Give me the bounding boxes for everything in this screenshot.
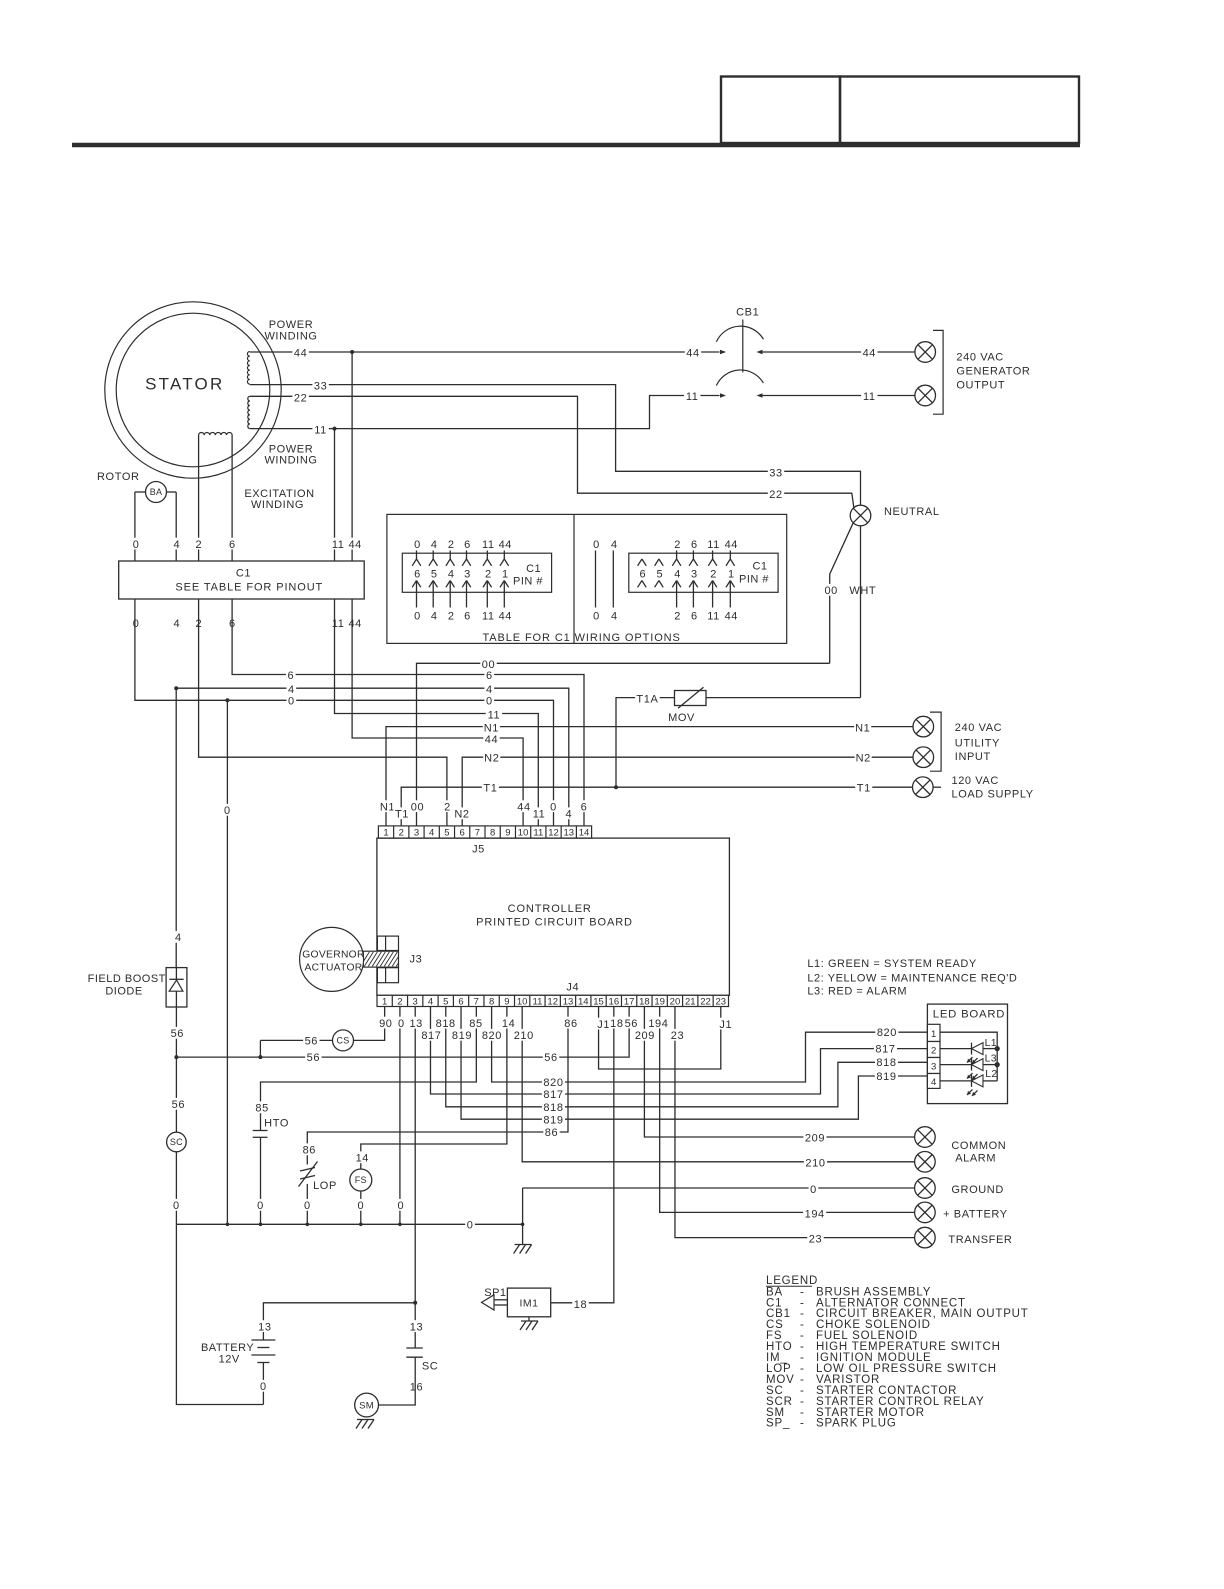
svg-text:14: 14 — [579, 827, 590, 838]
wire 4 label b — [484, 683, 494, 695]
wire 11 label c — [486, 708, 502, 720]
svg-text:-: - — [800, 1418, 805, 1430]
svg-text:13: 13 — [258, 1321, 271, 1333]
wire 00 label b — [480, 658, 496, 670]
svg-text:OUTPUT: OUTPUT — [956, 379, 1005, 391]
wire T1A label — [635, 692, 660, 704]
svg-text:2: 2 — [710, 568, 717, 580]
svg-text:11: 11 — [533, 809, 546, 821]
label 819 mid — [542, 1113, 565, 1125]
power winding coil 2 — [248, 396, 250, 428]
label 820 b — [875, 1026, 898, 1038]
wire 56 diode to SC — [175, 1007, 177, 1132]
wire 18 J4-16 to IM1 — [551, 1007, 614, 1303]
wire LOP to ground bus — [306, 1184, 308, 1224]
label 819 a — [450, 1029, 473, 1041]
svg-text:56: 56 — [544, 1052, 557, 1064]
wire 33 stator run — [250, 385, 861, 506]
svg-text:13: 13 — [563, 827, 574, 838]
svg-text:STATOR: STATOR — [145, 375, 224, 394]
svg-text:IM1: IM1 — [519, 1298, 538, 1310]
wire 11 drop to C1 — [334, 429, 336, 561]
svg-text:6: 6 — [464, 611, 471, 623]
label 817 b — [874, 1042, 897, 1054]
LED board box — [927, 1004, 1007, 1104]
svg-text:1: 1 — [502, 568, 509, 580]
wire 194 J4-19 to terminal — [660, 1007, 915, 1213]
title block rule — [72, 143, 1080, 148]
svg-text:819: 819 — [452, 1030, 472, 1042]
svg-text:CONTROLLER: CONTROLLER — [508, 903, 592, 915]
starter motor SM — [355, 1393, 379, 1417]
svg-text:210: 210 — [514, 1030, 534, 1042]
svg-text:2: 2 — [397, 996, 402, 1007]
label 4 above J5-13 — [564, 807, 574, 819]
svg-text:22: 22 — [294, 392, 307, 404]
svg-text:0: 0 — [593, 611, 600, 623]
svg-text:0: 0 — [173, 1200, 180, 1212]
svg-text:23: 23 — [716, 996, 727, 1007]
svg-text:J1: J1 — [597, 1019, 610, 1031]
svg-text:0: 0 — [398, 1200, 405, 1212]
svg-text:J4: J4 — [566, 981, 579, 993]
C1 option1 pin 1 wire 44 — [497, 538, 513, 550]
label 56 diode b — [170, 1098, 186, 1110]
wire 11 run to J5-11 — [335, 599, 539, 826]
high temperature switch HTO — [253, 1130, 268, 1132]
label 86 LOP — [301, 1143, 317, 1155]
wire 22 label a — [292, 391, 308, 403]
svg-text:16: 16 — [410, 1382, 423, 1394]
svg-text:23: 23 — [809, 1233, 822, 1245]
label 23 a — [669, 1029, 685, 1041]
wire T1 J5-2 to terminal — [401, 787, 912, 826]
wire 44 label d — [483, 733, 499, 745]
svg-text:LEGEND: LEGEND — [766, 1275, 818, 1287]
svg-text:820: 820 — [877, 1027, 897, 1039]
svg-text:FS: FS — [355, 1175, 367, 1185]
svg-text:1: 1 — [728, 568, 735, 580]
starter contactor SC contacts — [406, 1347, 423, 1349]
svg-text:6: 6 — [691, 611, 698, 623]
wire bus to battery negative — [176, 1224, 263, 1404]
svg-text:LED BOARD: LED BOARD — [933, 1008, 1006, 1020]
svg-text:16: 16 — [609, 996, 620, 1007]
svg-text:6: 6 — [486, 670, 493, 682]
label 14 J4-9 — [500, 1017, 516, 1029]
junction 11 — [333, 427, 337, 431]
svg-text:1: 1 — [383, 827, 388, 838]
terminal transfer — [915, 1227, 936, 1248]
svg-text:N1: N1 — [484, 722, 499, 734]
label 209 a — [633, 1029, 656, 1041]
C1 option2 pin 5 unconnected — [655, 559, 659, 566]
generator output bracket — [933, 330, 943, 414]
svg-text:J5: J5 — [472, 844, 485, 856]
svg-text:11: 11 — [533, 996, 543, 1007]
svg-text:818: 818 — [543, 1102, 563, 1114]
svg-text:GROUND: GROUND — [951, 1184, 1004, 1196]
power winding coil 1 — [247, 352, 249, 385]
label 13 J4-3 — [408, 1017, 424, 1029]
C1 option2 pin 4 wire 2 — [673, 538, 683, 550]
wire 86 J4-13 to LOP — [307, 1007, 568, 1165]
wire LED pin2 internal — [940, 1048, 972, 1050]
ground symbol main — [515, 1244, 532, 1246]
label 6 above C1 — [227, 538, 237, 550]
LED L2 — [971, 1075, 973, 1087]
svg-text:11: 11 — [686, 391, 699, 403]
wire 0 ground terminal — [523, 1188, 915, 1224]
svg-text:WINDING: WINDING — [264, 455, 317, 467]
C1 option2 pin 3 wire 6 — [690, 538, 700, 550]
svg-text:4: 4 — [486, 684, 493, 696]
svg-text:PIN #: PIN # — [513, 576, 543, 588]
svg-text:818: 818 — [436, 1018, 456, 1030]
svg-text:4: 4 — [429, 827, 434, 838]
wire 11 label a — [312, 424, 328, 436]
svg-text:44: 44 — [499, 539, 512, 551]
wire battery positive 13 — [263, 1303, 415, 1340]
label 818 mid — [542, 1101, 565, 1113]
wire 23 J4-20 to terminal — [675, 1007, 915, 1238]
svg-text:WINDING: WINDING — [264, 331, 317, 343]
label 209 b — [803, 1131, 826, 1143]
label 18 J4-16 — [609, 1017, 625, 1029]
C1 option 2 passthrough wire 4 — [609, 538, 619, 550]
wire 4 label a — [287, 683, 297, 695]
svg-text:6: 6 — [414, 568, 421, 580]
svg-text:90: 90 — [379, 1018, 392, 1030]
svg-text:0: 0 — [810, 1184, 817, 1196]
svg-text:4: 4 — [431, 539, 438, 551]
ignition module IM1 — [507, 1288, 550, 1317]
terminal 240VAC output L2 — [915, 385, 936, 406]
controller printed circuit board — [377, 838, 730, 995]
svg-text:7: 7 — [474, 996, 479, 1007]
svg-text:19: 19 — [654, 996, 665, 1007]
svg-text:819: 819 — [876, 1071, 896, 1083]
wire 11 label c — [861, 390, 877, 402]
wire 0 run to J5-12 — [135, 599, 554, 826]
svg-text:SM: SM — [359, 1400, 374, 1411]
breaker CB1 pole 2 contacts — [720, 393, 726, 397]
svg-text:4: 4 — [174, 539, 181, 551]
svg-text:5: 5 — [657, 568, 664, 580]
svg-text:2: 2 — [485, 568, 492, 580]
label 4 above C1 — [172, 538, 182, 550]
wire 56 to CS — [260, 1039, 332, 1041]
wire 90 J4-1 to CS — [354, 1007, 385, 1041]
wire J1 J4-15 to J4-23 — [599, 1007, 721, 1070]
brush assembly BA — [146, 482, 167, 503]
svg-text:240 VAC: 240 VAC — [955, 722, 1002, 734]
svg-text:ACTUATOR: ACTUATOR — [304, 963, 362, 974]
svg-text:10: 10 — [517, 996, 528, 1007]
wire BA right stub — [167, 491, 177, 493]
svg-text:6: 6 — [287, 670, 294, 682]
C1 option 2 passthrough wire 0 — [592, 538, 602, 550]
label 85 HTO — [254, 1101, 270, 1113]
svg-text:CB1: CB1 — [736, 307, 759, 319]
junction 4 — [174, 686, 178, 690]
svg-text:ROTOR: ROTOR — [97, 471, 140, 483]
svg-text:4: 4 — [175, 932, 182, 944]
ground bus label — [465, 1219, 475, 1231]
junction battery 13 — [413, 1301, 417, 1305]
label 56 diode a — [169, 1027, 185, 1039]
junction 56 jog — [258, 1055, 262, 1059]
label 210 a — [512, 1029, 535, 1041]
label 0 above J5-12 — [549, 800, 559, 812]
svg-text:PIN #: PIN # — [739, 574, 769, 586]
svg-text:6: 6 — [458, 996, 463, 1007]
svg-text:86: 86 — [545, 1127, 558, 1139]
svg-text:NEUTRAL: NEUTRAL — [884, 506, 940, 518]
svg-text:1: 1 — [931, 1029, 936, 1040]
label 818 a — [434, 1017, 457, 1029]
svg-text:9: 9 — [505, 827, 510, 838]
svg-text:0: 0 — [260, 1381, 267, 1393]
svg-text:3: 3 — [414, 827, 419, 838]
svg-text:2: 2 — [399, 827, 404, 838]
label T1 above J5-2 — [393, 807, 410, 819]
svg-text:44: 44 — [725, 539, 738, 551]
C1 option2 pin 1 wire 44 — [723, 538, 739, 550]
label 194 b — [803, 1207, 826, 1219]
label 0 above C1 — [131, 538, 141, 550]
svg-text:2: 2 — [444, 801, 451, 813]
wire 4 to field boost diode — [175, 688, 177, 967]
low oil pressure switch LOP — [300, 1168, 315, 1172]
label 56 line b — [543, 1051, 559, 1063]
svg-text:86: 86 — [564, 1018, 577, 1030]
svg-text:817: 817 — [875, 1044, 895, 1056]
wire 44 label b — [685, 346, 701, 358]
wire N1 J5-1 to terminal — [386, 727, 913, 826]
label 86 J4-13 — [563, 1017, 579, 1029]
connector J3 bottom cell — [377, 968, 398, 983]
svg-text:3: 3 — [691, 568, 698, 580]
svg-text:21: 21 — [685, 996, 696, 1007]
C1 wiring table box — [387, 514, 787, 643]
title block cell 2 — [840, 77, 1079, 144]
svg-text:L3: L3 — [985, 1053, 997, 1065]
svg-text:0: 0 — [224, 805, 231, 817]
wire HTO to ground bus — [260, 1137, 262, 1224]
wire SC to ground bus — [175, 1152, 177, 1225]
svg-text:18: 18 — [639, 996, 650, 1007]
connector J4 — [377, 995, 729, 1006]
svg-text:20: 20 — [670, 996, 681, 1007]
svg-text:DIODE: DIODE — [105, 986, 142, 998]
label 6 below C1 — [227, 617, 237, 629]
label N1 above J5-1 — [379, 800, 396, 812]
wire 56 CS label — [303, 1034, 319, 1046]
svg-text:1: 1 — [382, 996, 387, 1007]
label 0 FS — [356, 1199, 366, 1211]
svg-text:J3: J3 — [410, 953, 423, 965]
terminal battery positive — [915, 1202, 936, 1223]
svg-text:240 VAC: 240 VAC — [956, 351, 1003, 363]
wire 16 to SM — [379, 1357, 416, 1405]
svg-text:WINDING: WINDING — [251, 499, 304, 511]
label 16 contactor — [408, 1380, 424, 1392]
svg-text:0: 0 — [414, 539, 421, 551]
terminal N1 utility — [913, 716, 934, 737]
svg-text:194: 194 — [648, 1018, 668, 1030]
svg-text:GOVERNOR: GOVERNOR — [302, 950, 364, 961]
label 11 above C1 — [330, 538, 346, 550]
svg-text:11: 11 — [482, 611, 495, 623]
svg-text:23: 23 — [671, 1030, 684, 1042]
label 44 below C1 — [347, 617, 363, 629]
svg-text:4: 4 — [611, 611, 618, 623]
svg-text:POWER: POWER — [269, 443, 314, 455]
C1 option1 pin 5 wire 4 — [429, 538, 439, 550]
svg-text:3: 3 — [931, 1061, 936, 1072]
label 11 above J5-11 — [531, 807, 547, 819]
utility input bracket — [930, 712, 941, 771]
svg-text:SP1: SP1 — [484, 1287, 506, 1299]
battery BAT1 — [251, 1339, 275, 1341]
terminal 209 common alarm — [915, 1127, 936, 1148]
svg-text:SC: SC — [170, 1137, 183, 1147]
LED board pin 2 — [927, 1042, 940, 1058]
svg-text:L2: L2 — [985, 1068, 997, 1080]
excitation winding coil — [199, 432, 233, 435]
label 44 above J5-10 — [516, 800, 532, 812]
label N2 above J5-6 — [453, 807, 470, 819]
label 0 battery — [259, 1380, 269, 1392]
svg-text:15: 15 — [593, 996, 604, 1007]
svg-text:N1: N1 — [855, 722, 870, 734]
wire 56 J4-17 run — [176, 1007, 629, 1058]
svg-text:TRANSFER: TRANSFER — [948, 1234, 1012, 1246]
svg-text:0: 0 — [304, 1200, 311, 1212]
junction L3 — [995, 1062, 1000, 1067]
svg-text:CS: CS — [336, 1036, 349, 1046]
svg-text:SPARK PLUG: SPARK PLUG — [816, 1418, 897, 1430]
svg-text:819: 819 — [543, 1114, 563, 1126]
field boost diode — [166, 968, 187, 1007]
svg-text:18: 18 — [610, 1018, 623, 1030]
svg-text:820: 820 — [482, 1030, 502, 1042]
label 86 mid — [543, 1126, 559, 1138]
wire LED pin1 internal — [940, 1032, 997, 1081]
svg-text:10: 10 — [518, 827, 529, 838]
svg-text:11: 11 — [314, 425, 327, 437]
breaker CB1 pole 2 arc — [716, 370, 763, 386]
wire 819 J4-6 to LED board — [461, 1007, 927, 1120]
label 85 J4-7 — [468, 1017, 484, 1029]
C1 option1 pin 3 wire 6 — [463, 538, 473, 550]
label 0 SC — [172, 1199, 182, 1211]
svg-text:6: 6 — [460, 827, 465, 838]
junction 0 — [225, 698, 229, 702]
choke solenoid CS — [333, 1030, 354, 1051]
svg-text:33: 33 — [314, 381, 327, 393]
svg-text:4: 4 — [431, 611, 438, 623]
LED board pin 1 — [927, 1024, 940, 1041]
svg-text:5: 5 — [444, 827, 449, 838]
svg-text:5: 5 — [443, 996, 448, 1007]
LED L3 — [971, 1059, 973, 1071]
label 44 above C1 — [347, 538, 363, 550]
wire 6 label a — [286, 669, 296, 681]
wire 33 label b — [768, 466, 784, 478]
svg-text:2: 2 — [674, 611, 681, 623]
svg-text:C1: C1 — [752, 561, 767, 573]
svg-text:T1: T1 — [857, 782, 871, 794]
neutral terminal — [850, 505, 871, 526]
label 11 below C1 — [330, 617, 346, 629]
svg-text:11: 11 — [332, 539, 345, 551]
svg-text:818: 818 — [876, 1057, 896, 1069]
svg-text:44: 44 — [348, 539, 361, 551]
svg-text:INPUT: INPUT — [955, 751, 991, 763]
C1 option2 pin 6 unconnected — [638, 559, 642, 566]
terminal ground — [915, 1178, 936, 1199]
wire T1 label b — [855, 781, 872, 793]
connector C1 box — [119, 561, 365, 599]
svg-text:0: 0 — [593, 539, 600, 551]
svg-text:PRINTED CIRCUIT BOARD: PRINTED CIRCUIT BOARD — [476, 916, 633, 928]
wire 00 run to J5-3 — [417, 663, 830, 826]
label 2 above J5-5 — [443, 800, 453, 812]
svg-text:56: 56 — [625, 1018, 638, 1030]
svg-text:J1: J1 — [719, 1019, 732, 1031]
svg-text:817: 817 — [543, 1089, 563, 1101]
wire T1 label a — [482, 781, 499, 793]
wire MOV to neutral — [706, 697, 861, 699]
svg-text:12: 12 — [548, 827, 559, 838]
svg-text:13: 13 — [563, 996, 574, 1007]
wire 820 J4-8 to LED board — [492, 1007, 928, 1083]
label 194 a — [647, 1017, 670, 1029]
wire 22 stator run — [250, 396, 854, 508]
svg-text:13: 13 — [409, 1018, 422, 1030]
svg-text:GENERATOR: GENERATOR — [956, 365, 1030, 377]
svg-text:18: 18 — [574, 1299, 587, 1311]
LED board pin 3 — [927, 1058, 940, 1074]
wire 85 J4-7 to HTO — [261, 1007, 477, 1131]
svg-text:LOAD SUPPLY: LOAD SUPPLY — [952, 789, 1034, 801]
svg-text:44: 44 — [863, 348, 876, 360]
svg-text:44: 44 — [725, 611, 738, 623]
wire 13 J4-3 to starter contactor — [414, 1007, 416, 1349]
svg-text:33: 33 — [769, 468, 782, 480]
breaker CB1 pole 1 arc — [716, 326, 763, 342]
ground symbol SM — [357, 1419, 374, 1421]
svg-text:C1: C1 — [236, 568, 251, 580]
svg-text:WHT: WHT — [849, 585, 876, 597]
wire 2 excitation to C1 — [198, 435, 200, 561]
svg-text:11: 11 — [863, 391, 876, 403]
C1 option1 pin 6 wire 0 — [413, 538, 423, 550]
wire 11 label b — [684, 390, 700, 402]
wire 33 label a — [312, 380, 328, 392]
C1 option2 pin 2 wire 11 — [705, 538, 721, 550]
label 0 HTO — [256, 1199, 266, 1211]
label 23 b — [807, 1232, 823, 1244]
wire 6 label b — [484, 669, 494, 681]
label 210 b — [804, 1156, 827, 1168]
svg-text:85: 85 — [469, 1018, 482, 1030]
svg-text:POWER: POWER — [269, 319, 314, 331]
svg-text:0: 0 — [414, 611, 421, 623]
stator outer circle — [105, 302, 281, 478]
